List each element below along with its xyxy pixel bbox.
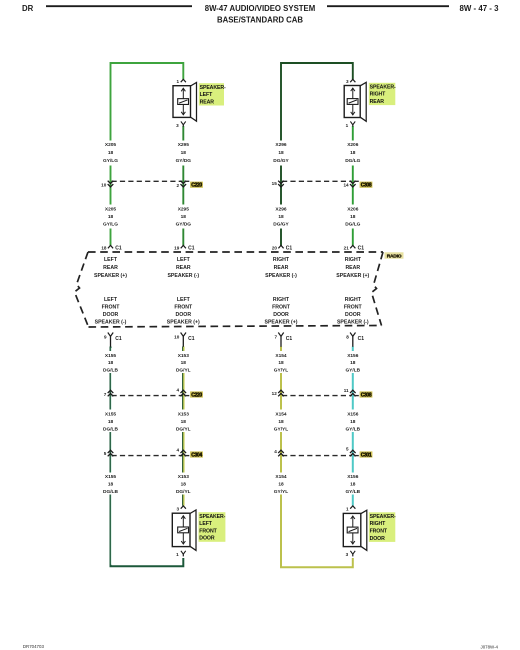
svg-text:RIGHT: RIGHT	[273, 297, 290, 303]
svg-text:5: 5	[346, 446, 349, 451]
svg-text:10: 10	[174, 334, 180, 339]
svg-text:REAR: REAR	[200, 99, 215, 105]
svg-text:SPEAKER (-): SPEAKER (-)	[167, 273, 199, 279]
svg-text:FRONT: FRONT	[344, 304, 363, 310]
svg-text:FRONT: FRONT	[174, 304, 193, 310]
svg-text:X154: X154	[275, 412, 287, 418]
svg-text:GY/DG: GY/DG	[176, 222, 192, 228]
svg-text:SPEAKER-: SPEAKER-	[370, 514, 396, 520]
svg-text:X154: X154	[275, 474, 287, 480]
svg-text:DG/GY: DG/GY	[273, 158, 289, 164]
svg-text:GY/LB: GY/LB	[345, 426, 360, 432]
svg-text:SPEAKER (+): SPEAKER (+)	[167, 319, 200, 325]
svg-text:C1: C1	[286, 336, 293, 342]
svg-text:C1: C1	[115, 246, 122, 252]
svg-text:C308: C308	[361, 392, 372, 398]
svg-text:2: 2	[177, 183, 180, 188]
svg-text:18: 18	[278, 214, 284, 220]
svg-text:GY/YL: GY/YL	[274, 426, 288, 432]
svg-text:X153: X153	[178, 412, 190, 418]
svg-text:3: 3	[176, 507, 179, 512]
svg-text:8W - 47 - 3: 8W - 47 - 3	[459, 4, 499, 13]
svg-text:4: 4	[177, 387, 180, 392]
svg-text:C220: C220	[191, 183, 202, 189]
svg-text:3: 3	[176, 123, 179, 128]
svg-text:18: 18	[278, 482, 284, 488]
svg-text:RIGHT: RIGHT	[370, 521, 387, 527]
svg-text:DG/GY: DG/GY	[273, 222, 289, 228]
svg-text:DG/LB: DG/LB	[103, 367, 118, 373]
svg-text:SPEAKER-: SPEAKER-	[370, 84, 396, 90]
svg-text:18: 18	[101, 245, 107, 250]
svg-text:18: 18	[108, 150, 114, 156]
svg-text:FRONT: FRONT	[272, 304, 291, 310]
svg-text:1: 1	[176, 552, 179, 557]
svg-text:LEFT: LEFT	[199, 521, 212, 527]
svg-text:FRONT: FRONT	[102, 304, 121, 310]
svg-text:DG/LB: DG/LB	[103, 489, 118, 495]
svg-text:X295: X295	[178, 207, 190, 213]
svg-text:5: 5	[104, 451, 107, 456]
svg-text:3: 3	[346, 79, 349, 84]
svg-text:LEFT: LEFT	[177, 297, 191, 303]
svg-text:SPEAKER (-): SPEAKER (-)	[265, 273, 297, 279]
svg-text:C308: C308	[361, 183, 372, 189]
svg-text:X156: X156	[347, 412, 359, 418]
svg-text:DG/YL: DG/YL	[176, 367, 191, 373]
svg-text:RIGHT: RIGHT	[370, 92, 387, 98]
svg-text:7: 7	[104, 392, 107, 397]
svg-text:DOOR: DOOR	[176, 312, 192, 318]
svg-text:18: 18	[108, 360, 114, 366]
svg-text:LEFT: LEFT	[200, 92, 213, 98]
svg-text:18: 18	[108, 482, 114, 488]
svg-text:18: 18	[181, 214, 187, 220]
svg-text:LEFT: LEFT	[104, 297, 118, 303]
svg-text:X205: X205	[105, 207, 117, 213]
svg-text:RADIO: RADIO	[387, 254, 402, 260]
svg-text:DOOR: DOOR	[273, 312, 289, 318]
svg-text:18: 18	[278, 360, 284, 366]
svg-text:X155: X155	[105, 353, 117, 359]
svg-text:GY/YL: GY/YL	[274, 367, 288, 373]
svg-text:DG/YL: DG/YL	[176, 426, 191, 432]
svg-text:18: 18	[181, 482, 187, 488]
svg-text:7: 7	[274, 334, 277, 339]
svg-text:DOOR: DOOR	[345, 312, 361, 318]
svg-text:X153: X153	[178, 474, 190, 480]
svg-text:GY/LB: GY/LB	[345, 489, 360, 495]
svg-text:DG/LG: DG/LG	[345, 158, 360, 164]
svg-text:GY/LG: GY/LG	[103, 222, 118, 228]
svg-text:J078W-4: J078W-4	[481, 645, 499, 650]
svg-text:DOOR: DOOR	[103, 312, 119, 318]
svg-text:18: 18	[181, 360, 187, 366]
svg-text:GY/DG: GY/DG	[176, 158, 192, 164]
svg-text:REAR: REAR	[274, 265, 289, 271]
svg-text:C1: C1	[115, 336, 122, 342]
svg-text:14: 14	[343, 183, 349, 188]
svg-text:18: 18	[350, 150, 356, 156]
svg-text:1: 1	[346, 507, 349, 512]
svg-text:4: 4	[274, 449, 277, 454]
svg-text:15: 15	[272, 181, 278, 186]
svg-text:DG/LG: DG/LG	[345, 222, 360, 228]
svg-text:C1: C1	[188, 246, 195, 252]
svg-text:1: 1	[176, 79, 179, 84]
svg-text:REAR: REAR	[345, 265, 360, 271]
svg-text:X296: X296	[275, 142, 287, 148]
svg-text:12: 12	[272, 391, 278, 396]
svg-text:X155: X155	[105, 412, 117, 418]
svg-text:SPEAKER-: SPEAKER-	[200, 85, 226, 91]
svg-text:DOOR: DOOR	[370, 536, 386, 542]
svg-text:X205: X205	[105, 142, 117, 148]
svg-text:GY/LB: GY/LB	[345, 367, 360, 373]
svg-text:C1: C1	[286, 246, 293, 252]
svg-text:SPEAKER (-): SPEAKER (-)	[95, 319, 127, 325]
svg-text:LEFT: LEFT	[104, 257, 118, 263]
svg-text:18: 18	[181, 419, 187, 425]
svg-text:REAR: REAR	[370, 99, 385, 105]
svg-text:C1: C1	[358, 336, 365, 342]
svg-text:X155: X155	[105, 474, 117, 480]
svg-text:18: 18	[350, 419, 356, 425]
svg-text:X156: X156	[347, 353, 359, 359]
svg-text:LEFT: LEFT	[177, 257, 191, 263]
svg-text:18: 18	[278, 419, 284, 425]
svg-text:18: 18	[108, 214, 114, 220]
svg-text:DR: DR	[22, 4, 34, 13]
svg-text:X296: X296	[275, 207, 287, 213]
svg-text:SPEAKER (-): SPEAKER (-)	[337, 319, 369, 325]
svg-text:9: 9	[104, 334, 107, 339]
svg-text:20: 20	[272, 245, 278, 250]
svg-text:SPEAKER (+): SPEAKER (+)	[94, 273, 127, 279]
svg-text:11: 11	[344, 388, 349, 393]
svg-text:19: 19	[174, 245, 180, 250]
svg-text:X206: X206	[347, 207, 359, 213]
svg-text:X154: X154	[275, 353, 287, 359]
svg-text:C301: C301	[361, 452, 372, 458]
svg-text:C1: C1	[188, 336, 195, 342]
svg-text:SPEAKER (+): SPEAKER (+)	[264, 319, 297, 325]
svg-text:8W-47 AUDIO/VIDEO SYSTEM: 8W-47 AUDIO/VIDEO SYSTEM	[205, 4, 315, 13]
svg-text:X153: X153	[178, 353, 190, 359]
svg-text:FRONT: FRONT	[370, 529, 388, 535]
svg-text:DR704703: DR704703	[23, 644, 45, 649]
svg-text:RIGHT: RIGHT	[273, 257, 290, 263]
svg-text:18: 18	[108, 419, 114, 425]
svg-text:4: 4	[177, 448, 180, 453]
svg-text:10: 10	[101, 182, 107, 187]
svg-text:SPEAKER (+): SPEAKER (+)	[336, 273, 369, 279]
svg-text:SPEAKER-: SPEAKER-	[199, 514, 225, 520]
svg-text:DG/LB: DG/LB	[103, 426, 118, 432]
svg-text:DG/YL: DG/YL	[176, 489, 191, 495]
svg-text:18: 18	[350, 214, 356, 220]
svg-text:3: 3	[346, 552, 349, 557]
svg-text:8: 8	[346, 334, 349, 339]
svg-text:DOOR: DOOR	[199, 536, 215, 542]
svg-text:GY/LG: GY/LG	[103, 158, 118, 164]
svg-text:18: 18	[278, 150, 284, 156]
svg-text:REAR: REAR	[103, 265, 118, 271]
svg-text:C304: C304	[191, 452, 202, 458]
svg-text:REAR: REAR	[176, 265, 191, 271]
svg-text:18: 18	[350, 482, 356, 488]
svg-text:GY/YL: GY/YL	[274, 489, 288, 495]
svg-text:RIGHT: RIGHT	[345, 257, 362, 263]
svg-text:1: 1	[346, 123, 349, 128]
svg-text:RIGHT: RIGHT	[345, 297, 362, 303]
svg-text:18: 18	[350, 360, 356, 366]
svg-text:X295: X295	[178, 142, 190, 148]
svg-text:FRONT: FRONT	[199, 528, 217, 534]
svg-text:21: 21	[344, 245, 350, 250]
svg-text:BASE/STANDARD CAB: BASE/STANDARD CAB	[217, 16, 303, 25]
svg-text:X156: X156	[347, 474, 359, 480]
svg-text:18: 18	[181, 150, 187, 156]
svg-text:C1: C1	[358, 246, 365, 252]
svg-text:X206: X206	[347, 142, 359, 148]
svg-text:C220: C220	[191, 392, 202, 398]
